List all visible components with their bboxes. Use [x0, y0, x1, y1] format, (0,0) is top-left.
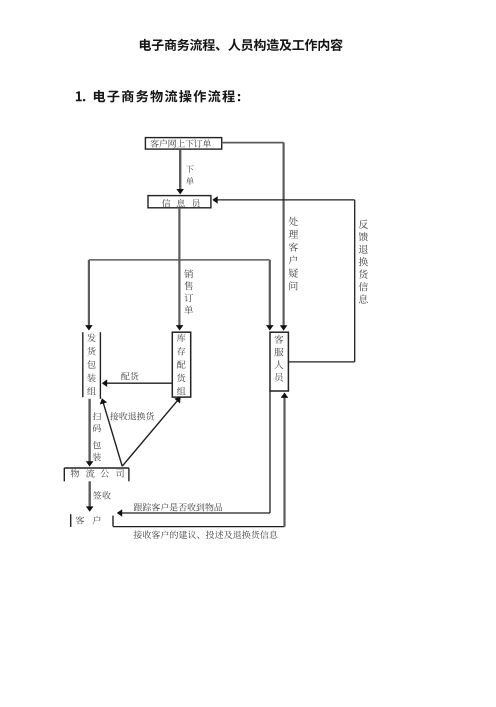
box 库存配货组 — [172, 332, 190, 397]
label lbl-jieshou2 — [134, 530, 278, 538]
arrow branch right to 客服人员 — [269, 260, 271, 326]
box 物流公司 (top+sides) — [64, 467, 129, 469]
label lbl-kucun (vertical) — [177, 334, 186, 395]
arrow 销售订单: 信息员 to 库存配货组 — [178, 208, 180, 326]
arrow 下单: 客户网上下订单 to 信息员 — [179, 149, 181, 190]
box 客服人员 — [270, 332, 288, 391]
label lbl-genzong — [134, 503, 222, 511]
wire 客户网上下订单 right to 处理客户疑问 drop — [222, 142, 284, 144]
label lbl-qianshou — [93, 491, 111, 499]
box 客户 (side borders) — [70, 514, 72, 527]
arrow 配货: 库存配货组 to 发货包装组 — [106, 382, 172, 384]
label lbl-chuli (vertical) — [289, 217, 299, 291]
label lbl-fahuo (vertical) — [87, 333, 96, 394]
label lbl-peihuo — [121, 372, 138, 380]
label lbl-kehu — [76, 516, 101, 525]
label lbl-fankui (vertical) — [359, 220, 368, 304]
arrow 签收: 物流公司 to 客户 — [88, 481, 90, 507]
wire 处理客户疑问 vertical drop to 客服人员 — [283, 143, 285, 326]
label lbl-kefu (vertical) — [274, 335, 283, 382]
label lbl-xiaoshou (vertical) — [184, 269, 193, 314]
arrow diagonal 物流公司 to 发货包装组 (接收退换货) — [103, 403, 122, 467]
label lbl-wuliu — [71, 469, 124, 478]
label head — [94, 90, 240, 102]
wire branch horizontal from 信息员 flow — [89, 259, 270, 261]
label lbl-box2 — [162, 199, 200, 208]
label title — [140, 39, 343, 51]
label lbl-saoma (vertical) — [93, 412, 101, 461]
wire 跟踪客户是否收到物品: 客服人员 down and left to 客户 — [269, 391, 271, 513]
box 发货包装组 (left+right borders only) — [82, 332, 84, 397]
box 客户网上下订单 — [145, 138, 221, 150]
wire 反馈退换货信息 path: 客服人员 right, up, into 信息员 — [288, 361, 354, 363]
label lbl-xiadan (vertical) — [186, 165, 194, 185]
arrow branch left to 发货包装组 — [88, 260, 90, 326]
box 信息员 — [148, 196, 211, 208]
label lbl-box1 — [151, 139, 212, 147]
label lbl-jieshou-thui — [110, 412, 154, 420]
arrow 扫码包装: 发货包装组 to 物流公司 — [88, 399, 90, 462]
wire 接收客户的建议投述及退换货信息: 客户 right and up to 客服人员 — [113, 526, 285, 528]
label head-num — [76, 91, 85, 101]
arrow diagonal 物流公司 to 库存配货组 (接收退换货) — [122, 401, 177, 467]
